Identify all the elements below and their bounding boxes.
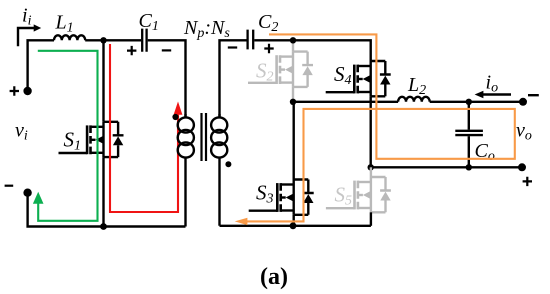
transformer core [202,113,207,161]
transformer T1 primary winding [178,114,194,227]
transistor S5 (inactive) [326,177,391,212]
node: Co bottom junction [466,164,472,170]
wire: S3 source lead [293,215,295,226]
wire: S1 source lead [102,157,104,226]
wire: input left vertical + top rail to L1 [28,40,54,91]
terminal input plus [23,87,31,95]
transistor S4 [326,61,391,96]
wire: Co top branch [468,102,470,130]
current arrow io [481,93,511,95]
wire: S2 drain lead (gray) [292,40,294,51]
wire: S5 source stub to bus [370,212,372,226]
wire: S2 source lead (gray) [292,87,294,102]
transformer T1 secondary winding [211,114,227,226]
node: B junction [290,99,296,105]
wire: S4 source long lead crossing rail [370,96,372,167]
label C1 minus [162,49,171,51]
wire: S1 drain lead [102,40,104,122]
label C2 minus [228,46,237,48]
inductor L1 [54,35,85,40]
svg-text:(a): (a) [260,264,288,290]
wire: output bottom rail [371,166,522,168]
label C2 plus [264,44,273,53]
wire: secondary bottom bus [220,225,371,227]
wire: secondary top lead to C2 [220,40,247,118]
wire: S3 drain lead [293,102,295,180]
svg-text:ii: ii [22,5,32,29]
svg-text:S4: S4 [334,62,352,88]
svg-text:vi: vi [15,120,28,144]
terminal output minus [519,98,527,106]
node: S4 source to output bottom rail [368,164,374,170]
green input current loop [38,51,98,221]
node: C2 top rail junction [290,37,296,43]
svg-text:C1: C1 [139,10,159,34]
svg-text:L2: L2 [407,74,426,98]
node: primary polarity dot [172,114,178,120]
svg-text:io: io [486,72,499,96]
svg-text:L1: L1 [55,12,74,36]
node: L1-C1-S1 junction [100,37,106,43]
wire: rail L1 to C1 [85,39,141,41]
node: S1 source on bus [100,223,107,230]
node: S3 source on bus [290,222,297,229]
wire: minus terminal down and primary bottom bus [28,193,186,227]
label C1 plus [127,46,136,55]
inductor L2 [398,97,430,102]
terminal input minus [23,189,31,197]
capacitor C1 [142,29,146,52]
wire: S5 drain lead (gray) [370,167,372,177]
svg-text:Np:Ns: Np:Ns [183,17,230,41]
terminal output plus [518,163,526,171]
svg-text:S5: S5 [335,183,353,209]
transistor S1 [59,122,124,157]
wire: node B rail to L2 [293,101,398,103]
red primary current loop [110,44,178,212]
svg-text:Co: Co [475,140,495,164]
svg-text:S1: S1 [64,128,82,154]
orange secondary current loop [241,34,515,221]
node: secondary polarity dot [225,161,231,167]
node: Co top junction [466,99,472,105]
current arrow ii [18,28,36,46]
svg-text:S3: S3 [256,181,274,207]
capacitor Co [455,131,483,135]
svg-text:C2: C2 [258,11,278,35]
svg-text:S2: S2 [256,59,274,85]
wire: rail C2 to S4 drain corner [254,40,370,61]
wire: Co bottom branch [468,136,470,167]
wire: L2 to output minus terminal [430,101,523,103]
capacitor C2 [248,30,254,50]
transistor S2 (inactive) [248,52,313,87]
transistor S3 [249,180,314,215]
wire: rail C1 to transformer primary top [148,40,186,118]
svg-text:vo: vo [516,120,532,144]
